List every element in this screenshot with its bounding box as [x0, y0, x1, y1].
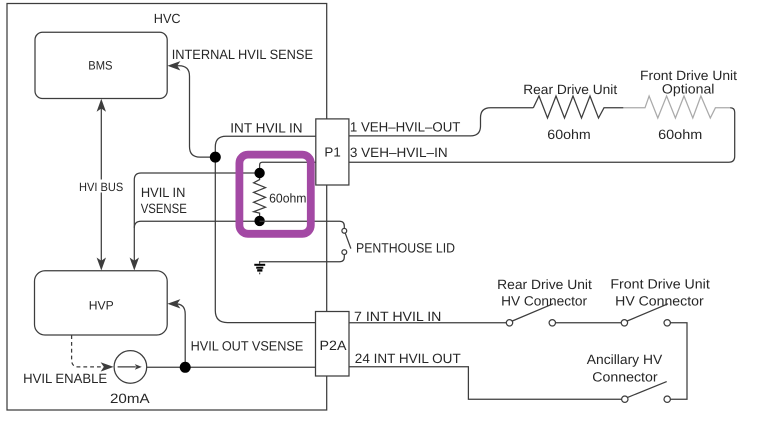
resistor Rear Drive Unit 60ohm: [533, 96, 623, 118]
P1 connector box: [316, 119, 349, 185]
svg-text:Ancillary HV: Ancillary HV: [587, 352, 662, 367]
node: resistor top dot: [254, 168, 264, 178]
svg-text:HV Connector: HV Connector: [501, 294, 588, 309]
switch Rear Drive Unit HV Connector: [506, 320, 512, 326]
P2A connector box: [316, 312, 350, 377]
svg-text:PENTHOUSE LID: PENTHOUSE LID: [356, 241, 455, 256]
svg-text:Connector: Connector: [592, 369, 658, 384]
svg-text:60ohm: 60ohm: [658, 127, 702, 142]
svg-text:INTERNAL HVIL SENSE: INTERNAL HVIL SENSE: [172, 47, 313, 62]
arrowhead into HVP right edge: [167, 299, 180, 308]
wire: resistor bottom to penthouse switch: [260, 221, 345, 228]
switch Front Drive Unit HV Connector: [621, 320, 627, 326]
wire: junction down to P2A pin7: [215, 157, 315, 323]
svg-text:Rear Drive Unit: Rear Drive Unit: [523, 82, 617, 97]
wire: HVI BUS (BMS to HVP, double arrow): [100, 102, 102, 267]
svg-text:60ohm: 60ohm: [547, 127, 590, 142]
svg-text:HV Connector: HV Connector: [615, 294, 704, 309]
wire: current source to dot to P2A pin24: [147, 366, 316, 368]
HVP box: [35, 271, 168, 335]
wire: pin7 INT HVIL IN to rear switch: [349, 322, 506, 324]
svg-text:HVP: HVP: [89, 299, 114, 313]
svg-text:3 VEH–HVIL–IN: 3 VEH–HVIL–IN: [350, 145, 448, 160]
resistor Front Drive Unit 60ohm (optional, gray): [623, 96, 730, 118]
svg-text:Front Drive Unit: Front Drive Unit: [610, 277, 710, 292]
arrowhead dashed into current source: [101, 362, 114, 371]
switch Ancillary HV Connector: [664, 396, 670, 402]
svg-text:HVIL IN: HVIL IN: [141, 185, 186, 200]
svg-text:INT HVIL IN: INT HVIL IN: [230, 120, 302, 135]
BMS box: [35, 32, 167, 98]
wire between rear and front switches: [556, 322, 622, 324]
wire: penthouse switch bottom to ground: [260, 255, 345, 264]
svg-text:HVC: HVC: [154, 11, 181, 26]
svg-text:HVIL ENABLE: HVIL ENABLE: [23, 371, 107, 386]
svg-text:BMS: BMS: [88, 59, 112, 73]
arrowhead into BMS bottom: [97, 99, 106, 112]
wire: HVIL IN VSENSE top tap (resistor top to vertical): [134, 173, 259, 267]
svg-text:Rear Drive Unit: Rear Drive Unit: [497, 277, 592, 292]
svg-text:HVIL OUT VSENSE: HVIL OUT VSENSE: [191, 338, 304, 353]
svg-text:60ohm: 60ohm: [269, 191, 306, 206]
wire: resistor top to P1 pin3 (internal): [260, 162, 316, 168]
HVI BUS label: [78, 180, 126, 195]
wire: HVIL OUT VSENSE (dot up to HVP arrow): [171, 304, 185, 368]
node: vsense junction dot: [180, 362, 191, 373]
wire: HVIL ENABLE dashed: [72, 335, 103, 367]
svg-text:24 INT HVIL OUT: 24 INT HVIL OUT: [355, 351, 461, 366]
current source 20mA: [114, 351, 147, 384]
wire: pin24 INT HVIL OUT to ancillary switch: [349, 367, 622, 399]
svg-text:7 INT HVIL IN: 7 INT HVIL IN: [354, 309, 441, 324]
svg-text:1 VEH–HVIL–OUT: 1 VEH–HVIL–OUT: [350, 120, 461, 135]
wire: INT HVIL IN (junction up to P1 pin1): [215, 136, 315, 157]
arrowhead into BMS right edge: [167, 61, 180, 70]
svg-text:P1: P1: [324, 144, 340, 159]
penthouse lid switch: [342, 228, 347, 233]
svg-text:Optional: Optional: [662, 82, 715, 97]
wire: front switch to right edge down to ancillary: [670, 323, 687, 399]
node: resistor bottom dot: [254, 216, 264, 226]
resistor 60ohm internal (vertical zigzag): [254, 173, 266, 221]
highlight: purple annotation rectangle: [239, 155, 310, 234]
HVC enclosure box: [7, 4, 327, 411]
wire: loop return to P1 pin3: [349, 108, 735, 162]
wire: pin1 VEH-HVIL-OUT to rear resistor: [349, 108, 533, 136]
ground: [254, 265, 265, 274]
wire: HVIL IN VSENSE bottom tap (resistor bottom merge): [134, 221, 259, 228]
svg-text:VSENSE: VSENSE: [141, 201, 187, 216]
node: INT HVIL IN junction dot: [210, 152, 221, 163]
svg-text:P2A: P2A: [320, 338, 347, 353]
svg-text:20mA: 20mA: [110, 391, 150, 406]
svg-text:HVI BUS: HVI BUS: [79, 180, 123, 194]
arrowhead into HVP top (vsense): [130, 258, 139, 271]
arrowhead into HVP top: [97, 258, 106, 271]
wire: INTERNAL HVIL SENSE (junction to BMS): [171, 66, 215, 157]
